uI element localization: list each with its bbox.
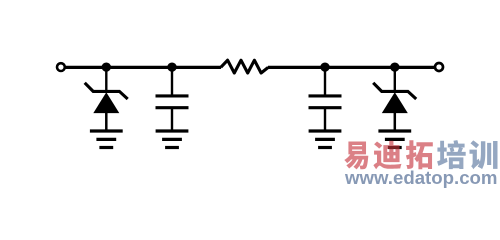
wire (left terminal to resistor) [66, 66, 222, 69]
resistor R1 [221, 60, 268, 73]
capacitor C1 [156, 67, 189, 131]
capacitor C2 [309, 67, 342, 131]
junction dot (node D) [390, 62, 399, 71]
terminal (left input port) [57, 63, 65, 71]
ground (below D1) [90, 131, 123, 148]
terminal (right output port) [435, 63, 443, 71]
ground (below C2) [309, 131, 342, 148]
watermark character 培 [437, 140, 466, 169]
watermark character 迪 [373, 141, 401, 169]
wire (resistor to right terminal) [268, 66, 434, 69]
junction dot (node B) [167, 62, 176, 71]
watermark character 易 [344, 142, 368, 170]
ground (below C1) [156, 131, 189, 148]
svg-text:www.edatop.com: www.edatop.com [344, 167, 498, 188]
ground (below D2) [378, 131, 411, 148]
junction dot (node C) [320, 62, 329, 71]
junction dot (node A) [102, 62, 111, 71]
watermark character 拓 [406, 140, 433, 169]
zener diode D2 [373, 67, 416, 131]
watermark character 训 [470, 140, 498, 169]
zener diode D1 [85, 67, 128, 131]
